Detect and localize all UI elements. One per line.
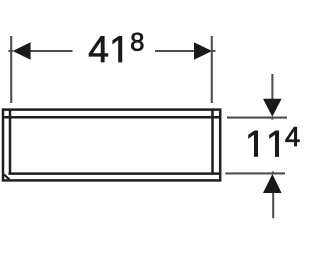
width dim line poke-through right: [211, 50, 216, 52]
height dim line poke-through top: [271, 118, 273, 120]
height reference line bottom: [225, 172, 285, 174]
height arrow top head: [263, 99, 282, 117]
shelf outer outline: [3, 110, 220, 181]
shelf bottom-left miter diagonal: [4, 174, 9, 179]
width dim line poke-through left: [8, 50, 13, 52]
height dim line poke-through bottom: [272, 171, 274, 173]
width arrow right: [194, 42, 212, 60]
height arrow top stem: [271, 74, 273, 100]
width label 41.8: [89, 36, 108, 62]
height arrow bottom stem: [272, 193, 274, 218]
height arrow bottom head: [263, 174, 282, 193]
shelf front top edge: [2, 116, 221, 119]
shelf front left edge: [9, 109, 12, 174]
width arrow left: [13, 42, 31, 60]
width dimension line left segment: [30, 50, 73, 52]
shelf front right edge: [211, 109, 214, 174]
height label 11.4: [249, 131, 258, 157]
width dimension line right segment: [155, 50, 195, 52]
width extension line left: [10, 36, 12, 103]
shelf front bottom edge: [8, 172, 221, 175]
height reference line top: [227, 117, 287, 119]
width extension line right: [211, 36, 213, 103]
